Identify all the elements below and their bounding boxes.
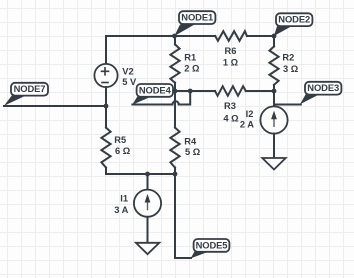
wire NODE3 stub (274, 104, 301, 106)
svg-text:R3: R3 (224, 101, 236, 111)
svg-text:6 Ω: 6 Ω (115, 146, 131, 156)
wire I1 top lead (147, 174, 149, 190)
svg-text:NODE1: NODE1 (181, 12, 213, 23)
junction V2/NODE7 (104, 104, 109, 109)
svg-text:NODE3: NODE3 (307, 82, 339, 93)
svg-text:2 A: 2 A (240, 119, 254, 129)
junction NODE4 a (173, 89, 178, 94)
junction NODE4 b (188, 89, 193, 94)
svg-text:R5: R5 (114, 135, 126, 145)
svg-text:3 Ω: 3 Ω (283, 64, 299, 74)
svg-text:R6: R6 (225, 46, 237, 56)
ground under I2 (262, 158, 285, 170)
wire I2 bottom lead (273, 134, 275, 158)
wire I1 bottom lead (147, 217, 149, 243)
junction I1 tap (145, 172, 150, 177)
resistor R3 (190, 90, 215, 92)
node flag NODE5 (191, 239, 230, 258)
wire NODE7 horizontal (4, 105, 106, 107)
resistor R5 (101, 128, 110, 168)
svg-text:R1: R1 (184, 52, 196, 62)
junction R3/R2/I2 (272, 89, 277, 94)
voltage source V2 (94, 64, 117, 87)
svg-text:NODE7: NODE7 (14, 83, 46, 94)
svg-text:5 Ω: 5 Ω (185, 147, 201, 157)
svg-text:4 Ω: 4 Ω (223, 113, 239, 123)
wire V2 bottom to R5 (105, 87, 107, 128)
NODE4 stub wires (175, 91, 190, 105)
junction R4 bottom (173, 172, 178, 177)
resistor R4 (174, 91, 176, 128)
junction NODE1 (172, 34, 177, 39)
svg-text:NODE4: NODE4 (139, 84, 172, 95)
wire bottom rail (106, 173, 175, 175)
resistor R1 (174, 36, 176, 44)
svg-text:R2: R2 (282, 53, 294, 63)
svg-text:I1: I1 (120, 194, 128, 204)
node flag NODE1 (174, 11, 215, 36)
wire R6 right lead (247, 35, 274, 37)
svg-text:I2: I2 (246, 109, 254, 119)
node flag NODE4 (132, 84, 173, 105)
ground under I1 (136, 243, 159, 254)
svg-text:2 Ω: 2 Ω (184, 64, 200, 74)
svg-text:NODE2: NODE2 (278, 14, 310, 25)
svg-text:3 A: 3 A (114, 205, 128, 215)
wire NODE5 run (175, 174, 191, 258)
wire hop over column (172, 101, 178, 104)
node flag NODE2 (272, 13, 313, 38)
svg-text:R4: R4 (184, 136, 197, 146)
node flag NODE7 (4, 83, 48, 106)
svg-text:5 V: 5 V (122, 77, 137, 87)
resistor R6 (215, 31, 247, 41)
current source I2 (260, 106, 287, 133)
current source I1 (134, 190, 161, 217)
node flag NODE3 (300, 82, 341, 105)
svg-text:NODE5: NODE5 (196, 239, 228, 250)
resistor R2 (273, 36, 275, 46)
wire NODE4 left run (132, 104, 172, 106)
wire top rail left (NODE1 net) (106, 36, 175, 64)
svg-text:V2: V2 (122, 67, 133, 77)
wire top rail R6 left lead (175, 35, 216, 37)
svg-text:1 Ω: 1 Ω (223, 57, 239, 67)
wire I2 top lead (273, 91, 275, 106)
